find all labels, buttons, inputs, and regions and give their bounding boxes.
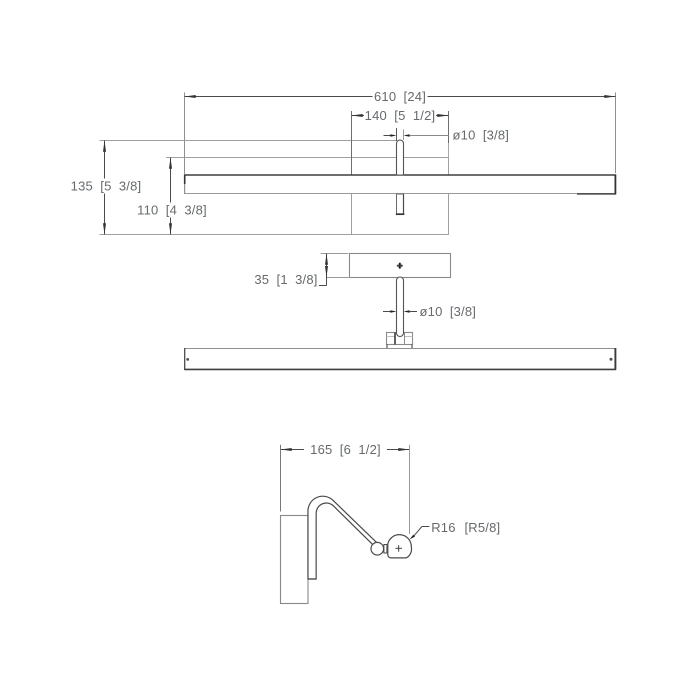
svg-text:140 [5 1/2]: 140 [5 1/2] — [365, 108, 436, 123]
svg-text:35 [1 3/8]: 35 [1 3/8] — [254, 272, 317, 287]
wall line (plan view) — [100, 234, 449, 236]
extension line left of 610 dim — [184, 93, 186, 175]
extension line right of 165 dim (front of head) — [409, 445, 411, 534]
head center cross (side view) — [395, 545, 402, 552]
bar light head (front view) — [184, 348, 616, 370]
canopy (front view) — [350, 254, 451, 278]
wall plate (side view) — [281, 516, 309, 604]
stem below bar (plan view) — [396, 194, 405, 215]
canopy screw head (front view) — [397, 263, 403, 269]
stem extension above knob (dia-10 reference right) — [403, 130, 405, 141]
dia 10 callout (plan view) — [384, 127, 510, 142]
dimension 135 [5 3/8] — [71, 141, 142, 235]
extension line left of 165 dim (wall plane) — [280, 445, 282, 512]
arm outer edge (side view) — [308, 496, 377, 579]
dimension 140 [5 1/2] — [352, 108, 449, 123]
screw hole left (front view) — [186, 358, 189, 361]
extension line right of 140 dim — [448, 111, 450, 158]
svg-text:ø10 [3/8]: ø10 [3/8] — [420, 304, 477, 319]
extension line: front-of-knob reference (135 dim top) — [100, 140, 397, 142]
dimension 610 [24] — [185, 89, 616, 104]
bar light head (plan view) — [184, 175, 616, 195]
dimension 110 [4 3/8] — [137, 158, 207, 235]
dimension 165 [6 1/2] — [281, 442, 410, 457]
R16 leader and arrow — [409, 520, 500, 540]
extension line: canopy front reference (110 dim top) — [166, 157, 352, 159]
stem (front view, capsule) — [397, 277, 404, 337]
screw hole right (front view) — [610, 358, 613, 361]
arm post bottom (side view) — [308, 578, 317, 580]
svg-text:R16 [R5/8]: R16 [R5/8] — [431, 520, 500, 535]
svg-text:165 [6 1/2]: 165 [6 1/2] — [310, 442, 381, 457]
extension line right of 610 dim — [615, 93, 617, 174]
canopy hidden outline (plan view) — [352, 158, 449, 235]
svg-text:110 [4 3/8]: 110 [4 3/8] — [137, 203, 207, 218]
dia 10 callout (front view) — [383, 304, 476, 319]
knuckle neck collar (side view) — [384, 545, 387, 554]
arm inner edge (side view) — [316, 503, 372, 579]
clamp bracket (front view) — [387, 333, 413, 349]
svg-text:135 [5 3/8]: 135 [5 3/8] — [71, 179, 142, 194]
lamp head (side view) — [388, 535, 412, 558]
svg-text:ø10 [3/8]: ø10 [3/8] — [453, 127, 510, 142]
dimension 35 [1 3/8] — [254, 254, 350, 287]
extension line left of 140 dim — [351, 111, 353, 175]
ball joint (side view) — [371, 542, 384, 555]
stem extension above knob (dia-10 reference left) — [396, 128, 398, 141]
svg-text:610 [24]: 610 [24] — [374, 89, 426, 104]
stem knob (plan view, capsule above bar) — [397, 140, 404, 175]
